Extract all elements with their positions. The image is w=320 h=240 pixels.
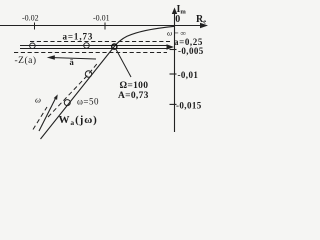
-Z(a) band right arrowhead on axis <box>167 44 175 49</box>
tick -0,005 on Im axis <box>170 49 177 51</box>
W(jw) curve (solid) <box>41 26 175 139</box>
dashed companion curve <box>48 63 98 118</box>
svg-text:-0,005: -0,005 <box>178 46 204 56</box>
axis Re arrowhead <box>200 23 208 29</box>
svg-text:-0,015: -0,015 <box>176 100 202 110</box>
tick -0,015 on Im axis <box>170 103 177 105</box>
svg-text:ω=50: ω=50 <box>77 97 99 107</box>
marker circle on -Z(a) line (left) <box>30 43 36 49</box>
omega direction arrow along curve <box>39 99 55 131</box>
omega=50 marker circle on W curve <box>64 100 70 106</box>
dashed tail segment (lower left) <box>33 107 47 130</box>
svg-text:-0.01: -0.01 <box>93 13 110 22</box>
marker circle on dashed curve <box>85 71 91 77</box>
intersection point circle (limit cycle) <box>112 44 117 49</box>
svg-text:a=0,25: a=0,25 <box>174 37 203 47</box>
tick -0.02 on Re axis <box>34 23 36 30</box>
svg-text:a=1,73: a=1,73 <box>63 31 94 41</box>
svg-text:A=0,73: A=0,73 <box>118 91 149 101</box>
tick -0,01 on Im axis <box>170 73 177 75</box>
svg-text:0: 0 <box>175 14 180 25</box>
axis Im (vertical) <box>174 12 176 132</box>
-Z(a) band: lower solid line <box>20 48 168 50</box>
svg-text:-Z(a): -Z(a) <box>15 55 37 66</box>
marker circle on -Z(a) line, a=1,73 <box>84 43 90 49</box>
-Z(a) band: upper dashed boundary <box>30 41 170 43</box>
svg-text:ω: ω <box>35 95 41 105</box>
svg-text:-0,01: -0,01 <box>178 70 199 80</box>
paper background <box>0 0 212 140</box>
-Z(a) band: upper solid line <box>20 45 168 47</box>
svg-text:Wa(jω): Wa(jω) <box>59 114 98 127</box>
a-bar direction arrow (points left) <box>50 58 96 60</box>
-Z(a) band: lower dashed boundary <box>14 52 167 54</box>
leader line to labels <box>116 49 131 77</box>
svg-text:-0.02: -0.02 <box>22 13 39 22</box>
axis Re (horizontal) <box>0 25 202 27</box>
tick -0.01 on Re axis <box>104 23 106 30</box>
axis Im arrowhead <box>172 8 177 15</box>
svg-text:Ω=100: Ω=100 <box>120 81 149 91</box>
